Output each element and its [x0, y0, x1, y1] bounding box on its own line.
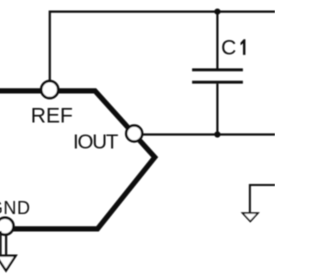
wire capacitor C1 top lead [216, 12, 218, 69]
wire to right ground [250, 185, 275, 213]
label C1 [221, 37, 245, 60]
wire capacitor C1 bottom lead [216, 84, 218, 135]
wire IOUT to right edge [143, 133, 276, 135]
junction top rail / C1 [214, 9, 220, 15]
junction IOUT wire / C1 [214, 131, 220, 137]
wire at left image edge [0, 231, 2, 255]
ground (arrow symbol, bottom-left, cropped) [0, 256, 16, 271]
pin IOUT [126, 126, 142, 142]
wire REF to top rail [50, 12, 275, 81]
IC outline U1 (DAC body, partially cropped at left) [0, 91, 155, 229]
capacitor C1 [192, 70, 243, 82]
svg-text:C: C [221, 37, 236, 60]
wire GND pin to ground arrow [5, 235, 7, 255]
pin REF [41, 81, 58, 98]
pin GND [0, 218, 14, 235]
ground (right, open triangle) [243, 213, 259, 221]
svg-text:GND: GND [0, 198, 31, 218]
svg-text:IOUT: IOUT [73, 131, 119, 154]
svg-text:REF: REF [31, 105, 73, 128]
